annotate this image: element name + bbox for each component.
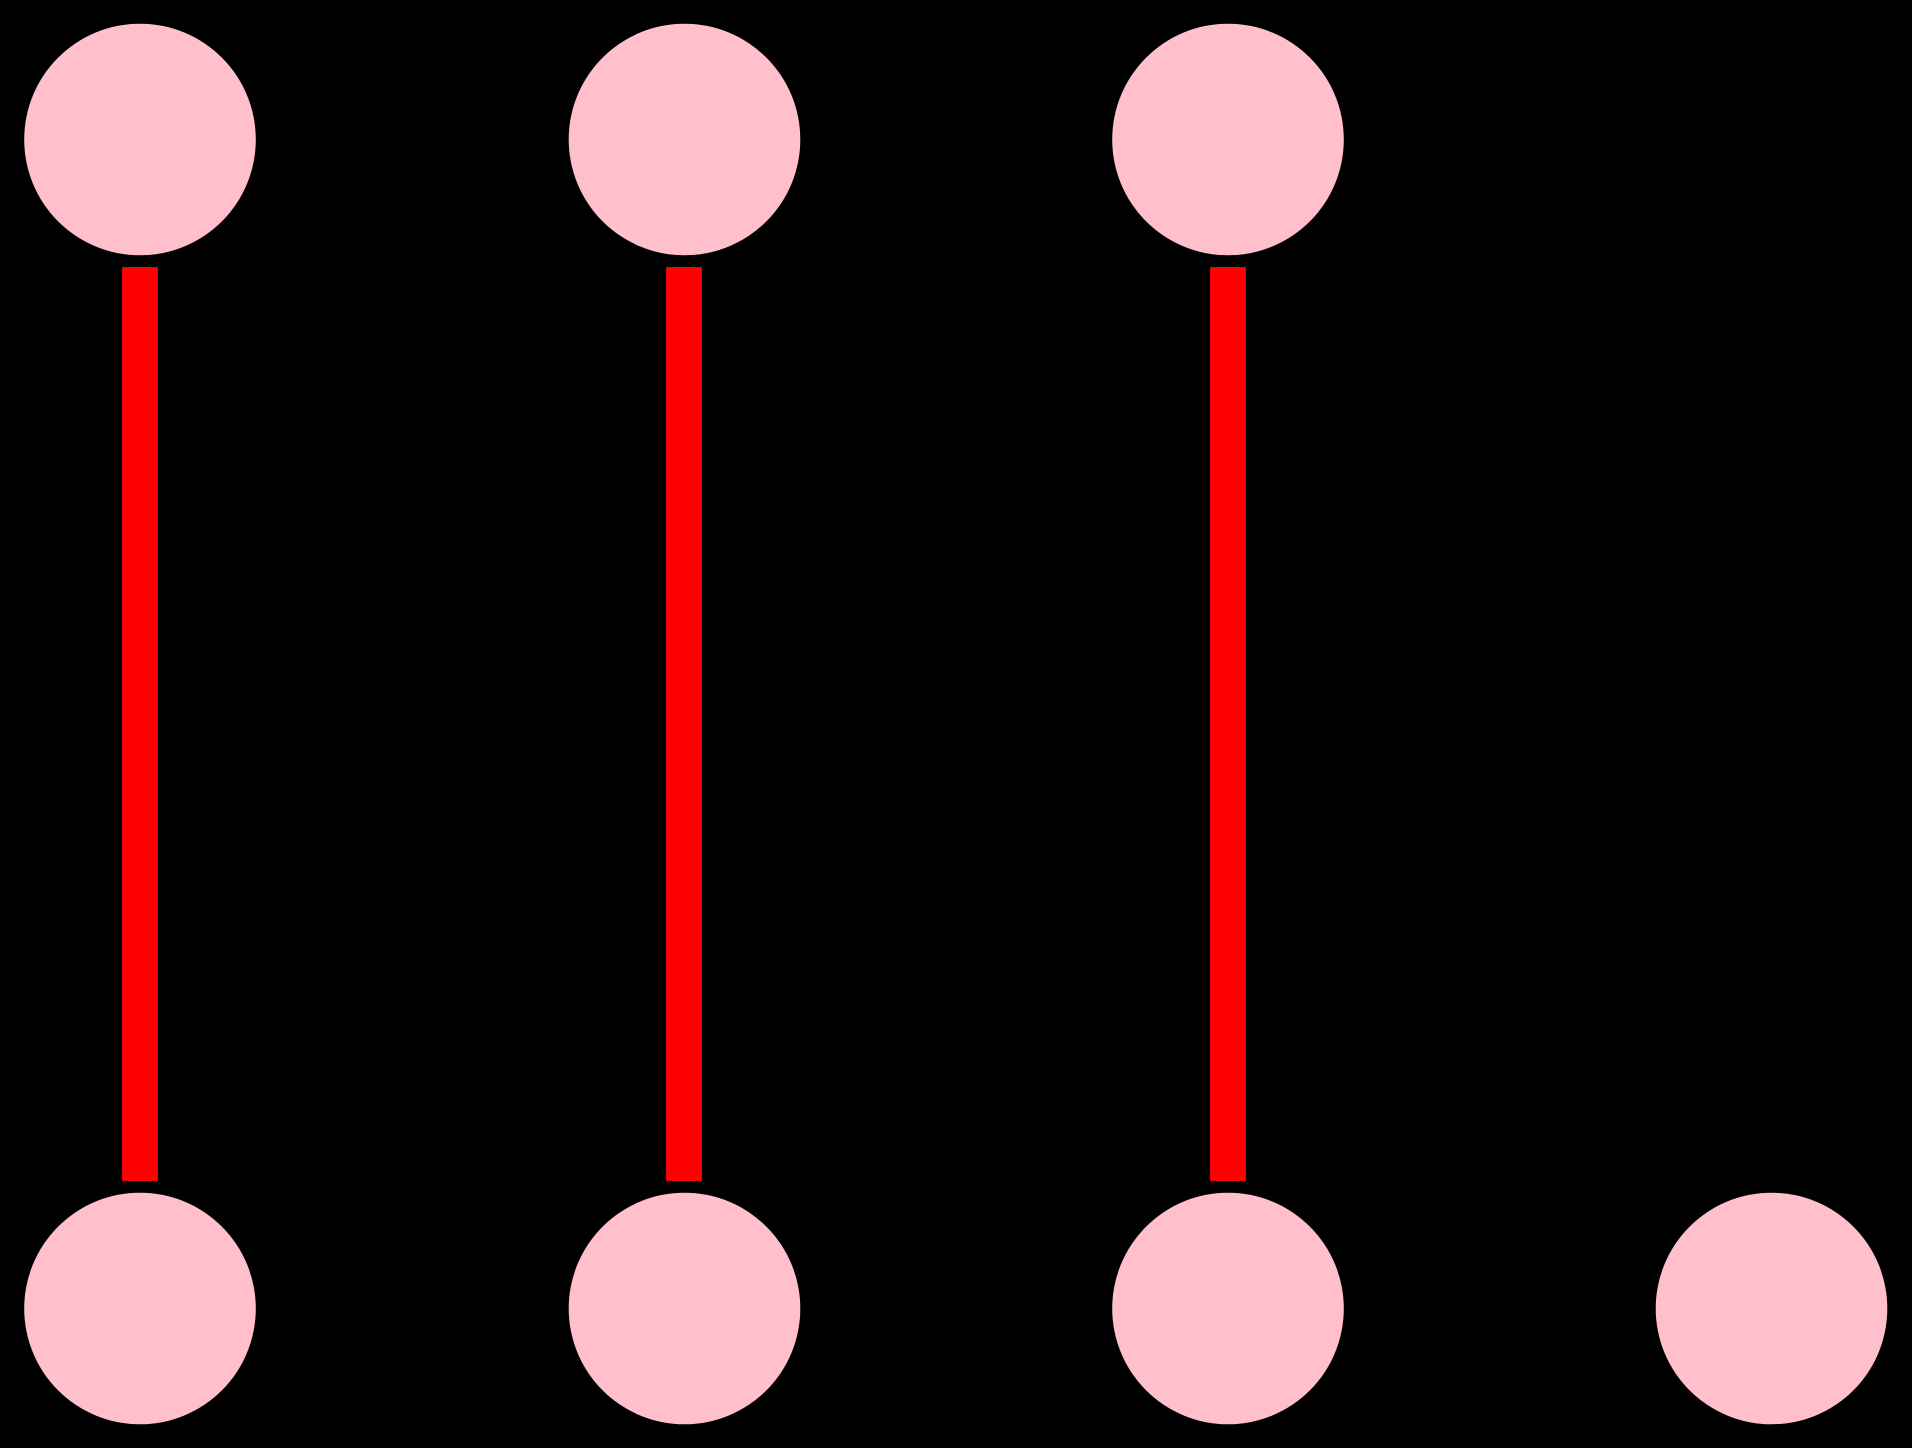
node B3 (bottom-right vertex) (1112, 1193, 1344, 1425)
wire edge E1 (matched edge, red) (122, 267, 158, 1181)
node T2 (top-middle vertex) (569, 24, 801, 256)
node T1 (top-left vertex) (24, 24, 256, 256)
node T3 (top-right vertex) (1112, 24, 1344, 256)
wire edge E2 (matched edge, red) (666, 267, 702, 1181)
node B1 (bottom-left vertex) (24, 1193, 256, 1425)
node B2 (bottom-middle vertex) (569, 1193, 801, 1425)
wire edge E3 (matched edge, red) (1210, 267, 1246, 1181)
node B4 (bottom far-right unmatched vertex) (1656, 1193, 1888, 1425)
